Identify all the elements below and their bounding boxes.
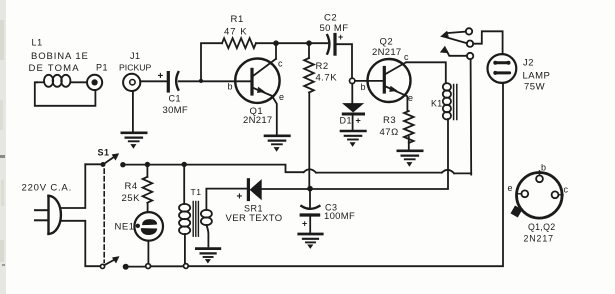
wire bottom rail left (129, 266, 146, 268)
svg-text:+: + (338, 32, 343, 42)
node junction dot (199, 79, 203, 83)
lamp J2 (488, 54, 517, 83)
node Q2 base (350, 78, 355, 83)
svg-text:S1: S1 (98, 148, 110, 158)
svg-text:b: b (361, 82, 366, 92)
wire contact A (446, 32, 466, 34)
rectifier SR1 (248, 180, 309, 200)
wire rail P right (454, 172, 471, 174)
coil L1 (37, 75, 87, 87)
svg-text:DE TOMA: DE TOMA (29, 63, 80, 74)
svg-text:2N217: 2N217 (243, 115, 273, 126)
dashed link S1 (103, 169, 105, 263)
transformer T1 primary (179, 204, 190, 234)
junction circle NE1 (146, 264, 151, 269)
switch S1 arm bottom (104, 259, 115, 265)
svg-text:K1: K1 (431, 99, 443, 109)
svg-text:b: b (541, 163, 546, 173)
wire top rail (256, 42, 328, 44)
wire base Q2 (355, 80, 384, 82)
wire bottom rail mid (151, 265, 184, 267)
arrow contact C (440, 46, 448, 53)
wire rail P (126, 165, 304, 173)
relay armature wire (444, 37, 467, 44)
wire lamp bottom to bottom rail (188, 83, 503, 266)
svg-text:50 MF: 50 MF (320, 23, 349, 34)
neon lamp NE1 (134, 212, 163, 241)
svg-text:T1: T1 (191, 187, 202, 197)
svg-text:J1: J1 (130, 51, 141, 61)
transistor pinout Q1 Q2 (511, 171, 563, 218)
svg-text:c: c (564, 185, 569, 195)
ground under D1 (341, 131, 365, 146)
junction circle T1 (184, 264, 189, 269)
svg-text:2N217: 2N217 (372, 47, 402, 58)
wire J1 to C1 (140, 80, 166, 82)
capacitor C2 (327, 35, 352, 79)
switch S1 pivot dot (101, 162, 106, 167)
relay K1 core (454, 85, 457, 120)
relay contact circle C (467, 53, 473, 59)
contact dot S1 bottom (123, 264, 129, 270)
node supply junction (307, 186, 313, 192)
diode D1 (343, 84, 363, 130)
wire contact B to lamp (473, 31, 502, 54)
svg-text:LAMP: LAMP (523, 70, 551, 81)
relay contact circle B (467, 41, 473, 47)
resistor R3 (404, 111, 414, 150)
wire AC rail P left (85, 163, 100, 165)
wire rail P mid (316, 172, 442, 174)
resistor R4 (143, 165, 153, 213)
svg-text:D1: D1 (340, 116, 353, 126)
wire contact C down to AC rail (470, 59, 473, 174)
transformer T1 primary wire top (183, 164, 185, 204)
relay contact circle A (466, 28, 472, 34)
wire T1 primary bottom (184, 234, 186, 264)
wire T1 secondary top (206, 189, 246, 210)
ground under J1 (122, 91, 146, 148)
svg-text:L1: L1 (32, 38, 43, 48)
relay K1 coil (443, 83, 451, 119)
svg-text:+: + (237, 192, 243, 203)
svg-text:e: e (408, 93, 413, 103)
svg-text:J2: J2 (523, 58, 534, 69)
node R4 top (145, 162, 150, 167)
resistor R1 (222, 38, 256, 48)
capacitor C1 (168, 72, 178, 91)
wire L1 return loop (35, 82, 96, 106)
transformer T1 core (193, 202, 198, 237)
wire plug top to S1 (61, 164, 85, 208)
svg-text:VER TEXTO: VER TEXTO (226, 213, 283, 224)
svg-text:R4: R4 (125, 181, 138, 192)
wire C1 to base node (179, 80, 251, 82)
svg-text:NE1: NE1 (115, 222, 135, 233)
svg-text:C2: C2 (324, 13, 337, 24)
wire NE1 bottom (147, 241, 149, 264)
svg-text:c: c (278, 59, 283, 69)
svg-text:e: e (279, 92, 284, 102)
contact dot S1 top (120, 162, 125, 167)
ground under T1 secondary (196, 249, 219, 263)
svg-text:47Ω: 47Ω (380, 127, 399, 138)
svg-text:+: + (356, 116, 361, 126)
svg-text:BOBINA 1E: BOBINA 1E (31, 51, 89, 62)
hop over R2 column (304, 169, 316, 172)
svg-text:4.7K: 4.7K (316, 73, 338, 84)
svg-text:e: e (508, 183, 513, 193)
node collector Q1 (273, 40, 279, 46)
transistor Q1 (235, 58, 279, 134)
svg-text:c: c (404, 52, 409, 62)
svg-text:C1: C1 (169, 94, 182, 104)
svg-text:P1: P1 (96, 63, 108, 73)
wire arrow to contact C (447, 51, 467, 56)
hop over K1 column (442, 170, 454, 174)
svg-text:SR1: SR1 (244, 204, 263, 214)
svg-text:30MF: 30MF (163, 105, 188, 116)
wire K1 bottom to supply rail (311, 119, 448, 189)
scan noise left edge (0, 0, 6, 294)
jack J1 (123, 74, 140, 91)
svg-text:100MF: 100MF (324, 211, 355, 222)
svg-text:R3: R3 (383, 115, 396, 126)
wire Q1 collector (275, 43, 277, 59)
arrow S1 bottom (112, 257, 119, 263)
svg-text:25K: 25K (122, 193, 141, 204)
switch S1 pivot bottom (100, 264, 104, 268)
svg-text:2N217: 2N217 (524, 234, 554, 244)
svg-text:PICKUP: PICKUP (119, 62, 152, 72)
svg-text:75W: 75W (524, 82, 545, 93)
svg-text:Q1,Q2: Q1,Q2 (528, 222, 555, 232)
node R2 top (306, 40, 312, 46)
svg-text:b: b (228, 82, 233, 92)
ground under C3 (299, 234, 322, 248)
svg-text:220V C.A.: 220V C.A. (22, 182, 73, 193)
svg-text:47 K: 47 K (224, 27, 248, 38)
capacitor C3 (301, 189, 319, 233)
switch S1 arm top (103, 156, 115, 164)
resistor R2 (304, 43, 314, 186)
svg-text:+: + (158, 71, 164, 82)
wire feedback vertical (201, 43, 222, 81)
ground under R3 (398, 151, 422, 166)
transformer T1 secondary (201, 210, 212, 225)
svg-text:R2: R2 (316, 61, 329, 72)
svg-text:R1: R1 (231, 14, 244, 25)
svg-text:+: + (302, 219, 307, 229)
svg-text:Q2: Q2 (380, 37, 394, 48)
node T1 top (182, 162, 187, 167)
connector P1 (87, 75, 102, 90)
transistor Q2 (368, 59, 411, 111)
AC plug (35, 196, 61, 234)
arrow contact A (441, 31, 449, 38)
wire T1 secondary bottom to ground (206, 225, 208, 247)
arrow S1 top (112, 154, 119, 160)
wire Q2 collector to K1 (406, 62, 446, 83)
wire plug bottom to rail (61, 221, 101, 266)
ground under Q1 emitter (265, 136, 289, 151)
